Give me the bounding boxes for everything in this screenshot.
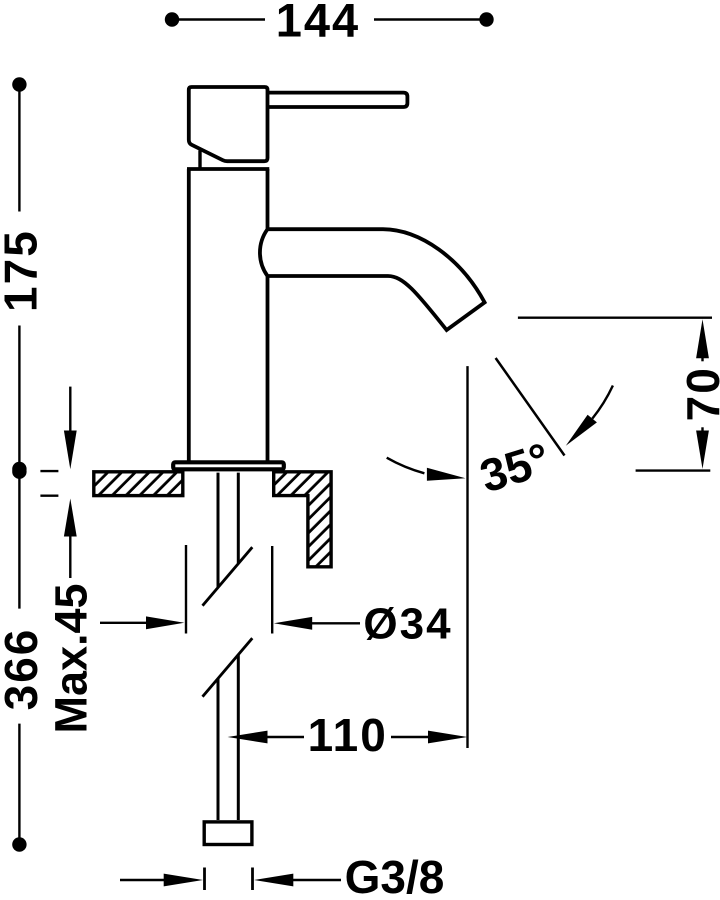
body left edge xyxy=(187,169,191,461)
dim Max.45 bottom dash xyxy=(40,495,58,497)
dim 175 upper line xyxy=(18,86,20,212)
dim O34 right arrow line xyxy=(310,622,360,624)
dim Max.45 lower arrowhead xyxy=(64,499,77,537)
dim 110 right line xyxy=(391,736,430,738)
G3/8 connector xyxy=(204,822,252,845)
dim 70 bottom ext line xyxy=(636,469,711,471)
handle neck line xyxy=(198,151,201,169)
dim 144 left line xyxy=(174,18,265,20)
base plate xyxy=(173,462,284,469)
dim G3/8 right arrowhead xyxy=(254,874,293,887)
dim 70 top ext line xyxy=(518,317,712,319)
dim 110 right arrowhead xyxy=(428,731,467,744)
svg-text:G3/8: G3/8 xyxy=(345,851,445,900)
dim 366 upper line xyxy=(18,473,20,609)
body right edge upper xyxy=(266,169,270,229)
angle arc right xyxy=(592,386,613,419)
deck right slab xyxy=(274,472,331,567)
dim O34 left ext line xyxy=(185,545,187,634)
dim 70 bottom arrowhead xyxy=(696,431,709,469)
angle arc right arrowhead xyxy=(566,415,597,446)
dim O34 right ext line xyxy=(271,546,273,634)
dim O34 left arrowhead xyxy=(146,616,184,629)
pipe break1 diagonal xyxy=(203,547,253,606)
dim 70 bottom stub xyxy=(701,427,703,431)
svg-text:110: 110 xyxy=(308,709,388,761)
dim 70 top stub xyxy=(701,358,703,361)
dim 175 bottom dot xyxy=(12,462,26,476)
dim O34 left arrow line xyxy=(100,622,150,624)
dim 175 top dot xyxy=(12,77,26,91)
deck left slab xyxy=(94,472,183,496)
dim G3/8 left arrowhead xyxy=(164,874,203,887)
dim Max.45 upper arrow line xyxy=(69,387,71,433)
svg-text:366: 366 xyxy=(0,628,47,711)
handle block xyxy=(189,87,268,161)
dim 110 left line xyxy=(266,736,304,738)
dim Max.45 top dash xyxy=(40,470,58,472)
dim G3/8 left arrow line xyxy=(120,879,166,881)
pipe segment2 right xyxy=(237,655,240,820)
svg-text:Ø34: Ø34 xyxy=(363,600,452,649)
dim Max.45 upper arrowhead xyxy=(64,431,77,470)
angle arc left arrowhead xyxy=(427,468,466,481)
dim 366 lower line xyxy=(18,724,20,843)
dim Max.45 lower arrow line xyxy=(69,535,71,578)
svg-text:Max.45: Max.45 xyxy=(46,583,97,733)
dim G3/8 right tick xyxy=(251,868,254,891)
dim 70 top arrowhead xyxy=(696,319,709,358)
dim O34 right arrowhead xyxy=(274,617,312,630)
pipe segment2 left xyxy=(217,679,220,821)
dim G3/8 left tick xyxy=(203,868,206,891)
dim 366 top dot xyxy=(12,465,26,479)
body right edge lower xyxy=(266,276,270,461)
svg-text:70: 70 xyxy=(677,366,720,421)
pipe segment1 left xyxy=(217,473,220,588)
svg-text:175: 175 xyxy=(0,229,46,312)
handle lever xyxy=(268,93,408,107)
pipe segment1 right xyxy=(237,473,240,563)
dim 144 left dot xyxy=(165,12,179,26)
angle arc left xyxy=(387,458,425,474)
body top edge xyxy=(187,167,269,171)
dim 175 lower line xyxy=(18,326,20,468)
pipe break2 diagonal xyxy=(203,638,253,697)
flow axis vertical line xyxy=(466,366,468,748)
dim 110 left arrowhead xyxy=(228,731,268,744)
spout xyxy=(260,229,485,330)
flow direction diagonal line xyxy=(496,358,565,456)
dim 366 bottom dot xyxy=(12,837,26,851)
dim G3/8 right arrow line xyxy=(291,879,341,881)
dim 144 right dot xyxy=(479,12,493,26)
svg-text:144: 144 xyxy=(276,0,360,47)
dim 144 right line xyxy=(374,18,485,20)
